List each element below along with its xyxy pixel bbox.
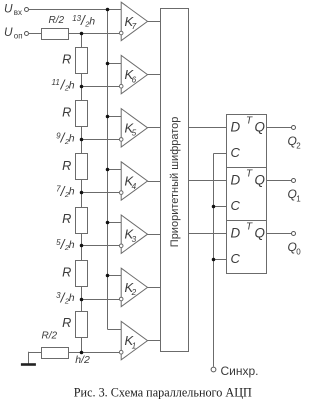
op-amp comparator K7 (119, 2, 147, 40)
svg-text:1: 1 (296, 195, 301, 204)
node Sync terminal (211, 364, 258, 378)
node Q0 terminal (288, 232, 302, 257)
svg-text:1: 1 (132, 341, 137, 350)
wire ladder vertical segments (81, 33, 83, 48)
op-amp comparator K5 (119, 109, 147, 147)
svg-text:R: R (62, 265, 71, 279)
svg-text:T: T (246, 169, 253, 180)
wire encoder output 1 to D (188, 180, 226, 182)
svg-text:11/2h: 11/2h (52, 78, 75, 93)
junction ladder tap 3 (80, 138, 84, 142)
svg-text:D: D (231, 173, 241, 188)
wire K7 output (148, 21, 161, 23)
wire K5 output (148, 127, 161, 129)
svg-text:C: C (231, 251, 241, 266)
svg-text:C: C (231, 145, 241, 160)
svg-text:3: 3 (132, 235, 137, 244)
svg-text:R: R (62, 159, 71, 173)
junction ladder tap 5 (80, 244, 84, 248)
svg-text:3/2h: 3/2h (56, 290, 75, 305)
wire K3 output (148, 234, 161, 236)
wire Q0 output (266, 233, 292, 235)
junction ladder tap 1 (80, 32, 84, 36)
wire tap 2 to comparator (82, 86, 120, 88)
wire bus to K6 top input (107, 63, 121, 65)
wire bus to K5 top input (107, 116, 121, 118)
wire K2 output (148, 287, 161, 289)
ground (21, 363, 36, 366)
svg-text:5: 5 (132, 129, 137, 138)
resistor R4 (ladder) (62, 208, 87, 234)
wire Q2 output (266, 127, 292, 129)
svg-text:Приоритетный шифратор: Приоритетный шифратор (169, 117, 181, 248)
junction ladder tap 4 (80, 191, 84, 195)
resistor R3 (ladder) (62, 154, 87, 180)
junction sync C2 (212, 205, 216, 209)
flip-flop DD3 (227, 221, 267, 274)
wire bus to K3 top input (107, 222, 121, 224)
svg-text:оп: оп (14, 32, 23, 41)
svg-text:7/2h: 7/2h (56, 184, 75, 199)
wire K1 output (148, 340, 161, 342)
svg-text:Q: Q (255, 172, 265, 187)
op-amp comparator K3 (119, 215, 147, 253)
wire tap 1 to comparator (82, 33, 120, 35)
svg-text:Синхр.: Синхр. (221, 364, 259, 378)
flip-flop DD2 (227, 168, 267, 221)
wire encoder output 0 to D (188, 233, 226, 235)
svg-text:9/2h: 9/2h (56, 131, 75, 146)
svg-text:Q: Q (255, 225, 265, 240)
wire tap 4 to comparator (82, 192, 120, 194)
wire R/2 to ladder top (68, 33, 82, 35)
svg-text:R: R (62, 316, 71, 330)
node Q2 terminal (288, 126, 302, 151)
wire bus to K4 top input (107, 169, 121, 171)
svg-text:C: C (231, 198, 241, 213)
wire Uvx vertical bus (107, 10, 109, 329)
wire K6 output (148, 74, 161, 76)
wire Uop to R/2 (28, 33, 41, 35)
wire sync to C2 (214, 206, 226, 208)
op-amp comparator K4 (119, 162, 147, 200)
junction sync C3 (212, 258, 216, 262)
op-amp comparator K2 (119, 268, 147, 306)
resistor R1 (ladder) (62, 48, 87, 74)
node Q1 terminal (288, 179, 302, 204)
op-amp comparator K1 (119, 321, 147, 359)
node Uop reference terminal (4, 25, 29, 41)
op-amp comparator K6 (119, 55, 147, 93)
svg-text:R: R (62, 53, 71, 67)
junction bus K3 (106, 221, 110, 225)
junction ladder tap 7 (80, 351, 84, 355)
junction bus K7 (106, 8, 110, 12)
junction bus K4 (106, 168, 110, 172)
wire encoder output 2 to D (188, 127, 226, 129)
svg-text:T: T (246, 116, 253, 127)
wire tap 5 to comparator (82, 245, 120, 247)
resistor R2 (ladder) (62, 101, 87, 127)
junction bus K6 (106, 62, 110, 66)
svg-text:2: 2 (131, 288, 137, 297)
wire sync to C3 (214, 259, 226, 261)
svg-text:2: 2 (296, 142, 301, 151)
wire sync vertical bus (213, 153, 215, 366)
svg-text:D: D (231, 226, 241, 241)
wire tap 6 to comparator (82, 299, 120, 301)
resistor R6 (ladder) (62, 312, 87, 338)
wire tap 7 to comparator (82, 352, 120, 354)
resistor R/2 (bottom) (42, 331, 69, 359)
svg-text:Рис. 3. Схема параллельного АЦ: Рис. 3. Схема параллельного АЦП (74, 386, 252, 400)
svg-text:Q: Q (255, 119, 265, 134)
svg-text:R: R (62, 212, 71, 226)
svg-text:R/2: R/2 (42, 331, 58, 342)
junction ladder tap 6 (80, 298, 84, 302)
svg-text:U: U (4, 25, 13, 39)
wire K4 output (148, 181, 161, 183)
wire tap 3 to comparator (82, 139, 120, 141)
svg-text:5/2h: 5/2h (56, 237, 75, 252)
node Uvx input terminal (4, 1, 29, 17)
svg-text:R: R (62, 106, 71, 120)
svg-text:h/2: h/2 (75, 354, 90, 366)
svg-text:6: 6 (132, 75, 137, 84)
wire bottom R/2 to node h/2 (68, 352, 82, 354)
svg-text:4: 4 (132, 182, 137, 191)
svg-text:U: U (4, 1, 13, 15)
junction ladder tap 2 (80, 85, 84, 89)
svg-text:13/2h: 13/2h (72, 13, 95, 29)
svg-text:T: T (246, 222, 253, 233)
junction bus K5 (106, 115, 110, 119)
flip-flop DD1 (227, 115, 267, 168)
svg-text:0: 0 (296, 248, 301, 257)
svg-text:R/2: R/2 (49, 15, 65, 26)
svg-text:D: D (231, 120, 241, 135)
svg-text:вх: вх (14, 8, 22, 17)
priority encoder box (161, 9, 189, 352)
wire sync to C1 (214, 153, 226, 155)
resistor R/2 (top) (42, 15, 69, 40)
wire Q1 output (266, 180, 292, 182)
wire Uvx to bus (29, 9, 122, 11)
junction bus K2 (106, 274, 110, 278)
wire bus to K2 top input (107, 275, 121, 277)
wire bottom R/2 to ground (28, 352, 41, 354)
resistor R5 (ladder) (62, 261, 87, 287)
svg-text:7: 7 (132, 22, 137, 31)
